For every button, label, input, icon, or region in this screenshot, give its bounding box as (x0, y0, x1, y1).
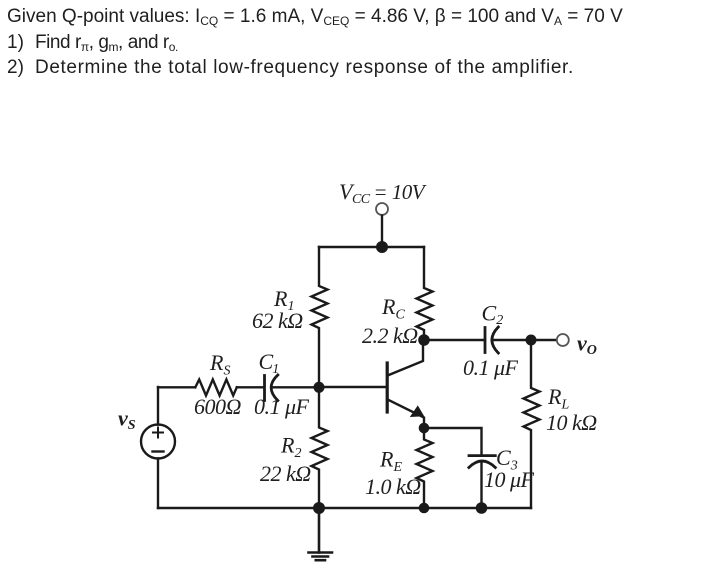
wire vs to RS (158, 386, 195, 388)
transistor Q1 emitter lead (388, 400, 425, 429)
source vs minus sign (153, 450, 164, 452)
svg-text:Determine the total low-freque: Determine the total low-frequency respon… (35, 57, 574, 78)
svg-text:2): 2) (7, 57, 24, 78)
node dot RE bottom (419, 503, 430, 514)
transistor Q1 collector lead (388, 340, 424, 376)
svg-text:Given Q-point values: ICQ = 1.: Given Q-point values: ICQ = 1.6 mA, VCEQ… (7, 6, 623, 28)
node dot C3 bottom (476, 502, 488, 514)
capacitor C3 (469, 456, 495, 468)
svg-text:10 μF: 10 μF (484, 467, 535, 492)
capacitor C2 (485, 327, 498, 353)
header text line 1 (7, 6, 623, 78)
node dot collector (418, 334, 430, 346)
resistor R2 (312, 387, 328, 508)
svg-text:VCC = 10V: VCC = 10V (339, 179, 427, 207)
source vs circle (141, 425, 175, 459)
svg-text:RL: RL (547, 384, 569, 413)
wire left rail bottom (157, 459, 159, 509)
wire top rail (319, 246, 424, 248)
resistor R1 (312, 247, 328, 387)
wire Vcc stem (381, 216, 383, 248)
wire emitter node to C3 (424, 428, 482, 456)
svg-text:1): 1) (7, 32, 24, 53)
svg-text:22 kΩ: 22 kΩ (260, 461, 311, 486)
transistor Q1 emitter arrow (410, 405, 424, 417)
wire collector node to C2 (424, 339, 485, 341)
ground (309, 508, 333, 560)
svg-text:R2: R2 (280, 433, 301, 462)
capacitor C1 (265, 375, 278, 401)
node dot emitter (419, 423, 430, 434)
resistor RE (417, 428, 433, 508)
transistor Q1 base bar (386, 363, 389, 412)
svg-text:vS: vS (118, 406, 136, 434)
resistor RL (524, 340, 540, 508)
source vs plus sign (153, 428, 163, 438)
node dot base (314, 382, 325, 393)
wire left rail top (157, 387, 159, 425)
wire RS to C1 (237, 386, 263, 388)
svg-text:1.0 kΩ: 1.0 kΩ (365, 474, 421, 499)
svg-text:600Ω: 600Ω (194, 394, 242, 419)
wire base node to transistor (319, 386, 386, 388)
wire C3 to bottom rail (480, 462, 482, 509)
wire bottom rail (158, 507, 531, 509)
svg-text:2.2 kΩ: 2.2 kΩ (362, 323, 418, 348)
svg-text:0.1 μF: 0.1 μF (463, 355, 519, 380)
resistor RS (195, 380, 237, 396)
wire C2 to output node (493, 339, 557, 341)
svg-text:10 kΩ: 10 kΩ (546, 410, 597, 435)
svg-text:RE: RE (379, 447, 402, 476)
node dot output (526, 335, 537, 346)
svg-text:vO: vO (577, 331, 597, 359)
node dot ground rail left (313, 502, 325, 514)
wire C1 to base node (272, 386, 319, 388)
svg-text:62 kΩ: 62 kΩ (252, 308, 303, 333)
resistor RC (417, 247, 433, 340)
Vcc terminal circle (376, 203, 388, 215)
output terminal vo circle (557, 334, 569, 346)
svg-text:RC: RC (381, 294, 405, 323)
node dot Vcc junction (376, 241, 388, 253)
svg-text:Find rπ, gm, and ro.: Find rπ, gm, and ro. (35, 32, 178, 54)
svg-text:RS: RS (209, 350, 230, 379)
svg-text:0.1 μF: 0.1 μF (254, 394, 310, 419)
svg-text:C1: C1 (259, 349, 280, 377)
svg-text:C2: C2 (482, 301, 504, 329)
